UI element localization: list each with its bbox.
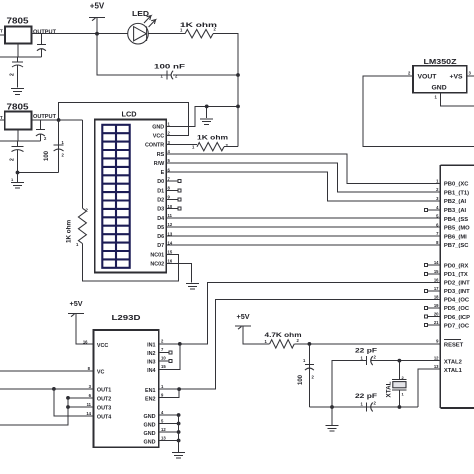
LCD character grid [102, 125, 129, 268]
junction ground rail / riser [330, 405, 334, 409]
capacitor C2 (polarized, to ground) [10, 57, 24, 88]
capacitor C9 22 pF (bottom) [355, 393, 377, 412]
svg-text:GND: GND [144, 431, 156, 437]
svg-text:16: 16 [168, 259, 173, 264]
svg-text:17: 17 [434, 286, 439, 291]
wire +5V to R4 [243, 326, 270, 344]
ground (LCD pin1) [200, 106, 213, 124]
svg-text:13: 13 [168, 231, 173, 236]
svg-text:1: 1 [265, 339, 268, 344]
svg-text:2: 2 [168, 131, 171, 136]
svg-text:XTAL1: XTAL1 [444, 368, 463, 374]
svg-text:PB0_(XC: PB0_(XC [444, 182, 469, 188]
regulator U2 7805 (second) [0, 102, 57, 130]
svg-text:8: 8 [168, 186, 171, 191]
svg-text:7805: 7805 [7, 102, 29, 112]
svg-text:1: 1 [402, 392, 405, 397]
svg-text:1: 1 [161, 74, 164, 79]
LCD module DIS1 [95, 110, 167, 273]
svg-text:VC: VC [97, 370, 105, 376]
svg-text:OUT2: OUT2 [97, 397, 111, 403]
svg-text:13: 13 [161, 436, 166, 441]
svg-text:+5V: +5V [237, 312, 250, 321]
LCD D0-D3 unconnected stubs [166, 180, 181, 211]
resistor R3 1K ohm (vertical, backlight) [66, 208, 89, 248]
svg-text:XTAL2: XTAL2 [444, 359, 462, 365]
svg-text:T: T [0, 29, 3, 34]
wire LCD E to PB2 [166, 172, 440, 201]
junction ground tap [205, 105, 209, 109]
svg-text:XTAL: XTAL [386, 381, 393, 397]
capacitor C3 100 nF [154, 64, 185, 80]
ground (xtal) [326, 407, 339, 431]
junction U2 output / +5V riser [57, 118, 61, 122]
+5V supply symbol (L293D) [68, 299, 84, 317]
svg-text:2: 2 [10, 73, 16, 76]
svg-text:VCC: VCC [97, 343, 108, 349]
wire R2 to GND bus [224, 146, 238, 148]
svg-text:12: 12 [161, 427, 166, 432]
wire R1 to GND bus corner [213, 34, 238, 75]
svg-text:1K ohm: 1K ohm [180, 22, 217, 29]
svg-text:2: 2 [62, 153, 65, 158]
svg-text:7: 7 [436, 231, 439, 236]
svg-text:14: 14 [434, 260, 439, 265]
svg-text:11: 11 [87, 402, 92, 407]
svg-text:1: 1 [436, 178, 439, 183]
wire U3 EN1 to PD4 [159, 300, 441, 390]
wire U4 +VS to edge [467, 75, 474, 77]
svg-text:10: 10 [168, 204, 173, 209]
svg-text:PB3_(AI: PB3_(AI [444, 208, 467, 214]
svg-text:OUT4: OUT4 [97, 415, 111, 421]
svg-text:PD3_(INT: PD3_(INT [444, 289, 470, 295]
svg-text:PD5_(OC: PD5_(OC [444, 306, 470, 312]
svg-text:3: 3 [168, 140, 171, 145]
svg-text:1: 1 [435, 95, 438, 100]
svg-text:PD1_(TX: PD1_(TX [444, 272, 468, 278]
svg-text:1: 1 [76, 242, 79, 247]
wire LCD D5 to PB5 [166, 226, 440, 228]
MCU PD unconnected stubs [424, 264, 440, 327]
wire U3 IN1 to PD2 [159, 282, 441, 344]
svg-text:R/W: R/W [154, 161, 165, 167]
svg-text:D1: D1 [157, 188, 164, 194]
capacitor C8 22 pF (top) [355, 348, 377, 366]
svg-text:GND: GND [144, 440, 156, 446]
junction GND bus / C3 [236, 73, 240, 77]
svg-text:1K ohm: 1K ohm [66, 220, 73, 243]
resistor R2 1K ohm (contrast) [192, 135, 229, 151]
svg-text:9: 9 [436, 339, 439, 344]
svg-text:IN1: IN1 [147, 343, 155, 349]
svg-text:9: 9 [168, 195, 171, 200]
svg-text:LCD: LCD [122, 110, 137, 119]
svg-text:2: 2 [374, 401, 377, 406]
svg-text:D7: D7 [157, 243, 164, 249]
temperature sensor U4 LM350Z [408, 59, 472, 100]
wire LCD RS to PB0 [166, 154, 440, 184]
svg-text:22 pF: 22 pF [355, 393, 377, 400]
svg-text:3: 3 [436, 196, 439, 201]
svg-text:PD4_(OC: PD4_(OC [444, 298, 470, 304]
svg-text:PB6_(MI: PB6_(MI [444, 234, 467, 240]
svg-text:12: 12 [168, 222, 173, 227]
svg-text:GND: GND [144, 423, 156, 429]
svg-text:7: 7 [161, 347, 164, 352]
wire LCD D6 to PB6 [166, 235, 440, 237]
svg-text:IN2: IN2 [147, 351, 155, 357]
wire LCD NC02 to ground [166, 264, 191, 283]
MCU PB3 unconnected stub [427, 209, 440, 211]
svg-text:11: 11 [168, 213, 173, 218]
svg-text:EN2: EN2 [145, 397, 156, 403]
wire +5V down to C3 [97, 34, 163, 75]
wire U3 VC to left edge [0, 370, 94, 372]
junction OUT1/OUT4 [52, 387, 56, 391]
+5V supply symbol (reset) [235, 312, 251, 329]
svg-text:OUTPUT: OUTPUT [33, 30, 57, 36]
junction +5V / LED node [95, 32, 99, 36]
svg-text:3: 3 [89, 384, 92, 389]
svg-text:D6: D6 [157, 234, 164, 240]
wire IN1-IN4 link [159, 344, 180, 370]
junction OUT2/OUT3 [66, 396, 70, 400]
svg-text:5: 5 [168, 158, 171, 163]
wire OUT1-OUT4 link [54, 389, 94, 416]
regulator U1 7805 (top) [0, 16, 57, 44]
wire OUT2/OUT3 to left edge [0, 398, 68, 425]
svg-text:CONTR: CONTR [145, 143, 164, 149]
svg-text:D5: D5 [157, 225, 164, 231]
svg-text:12: 12 [434, 356, 439, 361]
wire rail to XTAL1 riser [418, 369, 441, 407]
capacitor C4 (U2 output, vertical) [36, 120, 45, 141]
svg-text:3: 3 [469, 71, 472, 76]
svg-text:PD0_(RX: PD0_(RX [444, 263, 469, 269]
wire EN1-EN2 link [159, 389, 179, 398]
svg-text:21: 21 [434, 320, 439, 325]
svg-text:VCC: VCC [153, 134, 164, 140]
svg-text:LM350Z: LM350Z [424, 59, 458, 66]
svg-text:2: 2 [10, 158, 16, 161]
wire U3 GND pins bus [159, 413, 181, 452]
wire LCD D7 to PB7 [166, 244, 440, 246]
motor driver U3 L293D [94, 313, 159, 447]
wire C3 to GND bus [173, 74, 238, 76]
svg-text:13: 13 [434, 364, 439, 369]
svg-text:7: 7 [168, 176, 171, 181]
svg-text:NC01: NC01 [150, 252, 164, 258]
svg-text:+5V: +5V [90, 2, 105, 11]
svg-text:GND: GND [144, 414, 156, 420]
svg-text:PB1_(T1): PB1_(T1) [444, 190, 469, 196]
wire U4 VOUT loop to ADC [363, 76, 474, 147]
wire R3 top to +5V rail [81, 120, 83, 208]
svg-text:PB7_(SC: PB7_(SC [444, 243, 469, 249]
svg-text:4: 4 [168, 149, 171, 154]
wire OUT3 stub [68, 406, 94, 408]
+5V supply symbol (top) [89, 2, 105, 34]
wire U4 GND pin [441, 93, 474, 106]
junction crystal top [398, 359, 402, 363]
MCU PB pin labels [436, 178, 470, 249]
svg-text:15: 15 [434, 269, 439, 274]
svg-text:OUT3: OUT3 [97, 406, 111, 412]
svg-text:1K ohm: 1K ohm [197, 135, 229, 142]
svg-text:2: 2 [161, 339, 164, 344]
wire OUT2 stub [68, 397, 94, 399]
svg-text:OUT1: OUT1 [97, 388, 111, 394]
MCU XTAL2 label [434, 356, 462, 366]
svg-text:4: 4 [161, 410, 164, 415]
svg-text:PB5_(MO: PB5_(MO [444, 226, 470, 232]
svg-text:2: 2 [226, 143, 229, 148]
wire LCD R/W to PB1 [166, 163, 440, 192]
junction RESET / C7 [308, 342, 312, 346]
svg-text:1: 1 [62, 140, 65, 145]
junction crystal bottom [398, 405, 402, 409]
svg-text:PD7_(OC: PD7_(OC [444, 323, 470, 329]
wire U2 ground bus [0, 130, 40, 142]
svg-text:16: 16 [434, 277, 439, 282]
capacitor C7 100 (reset) [298, 344, 315, 407]
LED D1 [128, 11, 156, 44]
wire U2 output [32, 119, 83, 121]
wire LCD D4 to PB4 [166, 217, 440, 219]
LCD pin1 GND wire to ground [166, 106, 238, 126]
wire U1 ground bus [0, 44, 41, 58]
crystal Q1 XTAL [386, 361, 407, 407]
svg-text:2: 2 [175, 74, 178, 79]
svg-text:8: 8 [436, 240, 439, 245]
svg-text:5: 5 [161, 419, 164, 424]
wire R4 to MCU RESET [294, 343, 440, 345]
svg-text:1: 1 [168, 122, 171, 127]
junction EN1/EN2 [177, 387, 181, 391]
wire +5V rail from U1 output [32, 33, 128, 35]
ground (below U1) [11, 89, 24, 95]
svg-text:PD2_(INT: PD2_(INT [444, 281, 470, 287]
svg-text:14: 14 [86, 411, 91, 416]
svg-text:IN4: IN4 [147, 368, 155, 374]
svg-text:1: 1 [303, 358, 306, 363]
svg-text:18: 18 [434, 295, 439, 300]
LCD pin labels [145, 122, 173, 268]
svg-text:100: 100 [298, 374, 304, 385]
resistor R4 4.7K ohm [265, 332, 302, 348]
svg-text:L293D: L293D [112, 313, 141, 322]
svg-text:2: 2 [436, 187, 439, 192]
svg-text:2: 2 [408, 71, 411, 76]
svg-text:7805: 7805 [7, 16, 29, 26]
wire U3 OUT1 to left edge [0, 388, 94, 390]
U3 left pin labels [83, 340, 111, 421]
IN3 unconnected stub [159, 360, 169, 362]
wire C5 to C6 ground link [18, 172, 59, 174]
MCU XTAL1 label [434, 364, 463, 374]
svg-text:GND: GND [432, 85, 447, 92]
svg-text:PB2_(AI: PB2_(AI [444, 199, 467, 205]
svg-text:19: 19 [434, 303, 439, 308]
svg-text:+VS: +VS [450, 74, 464, 81]
IN2 unconnected stub [159, 351, 169, 353]
svg-text:LED: LED [132, 11, 149, 18]
svg-text:14: 14 [168, 240, 173, 245]
svg-text:IN3: IN3 [147, 360, 155, 366]
svg-text:15: 15 [168, 250, 173, 255]
junction IN1/IN4 [178, 342, 182, 346]
svg-text:1: 1 [361, 402, 364, 407]
wire LCD pin3 CONTR to R2 [166, 144, 197, 146]
wire +5V to U3 VCC pin16 [76, 314, 94, 345]
capacitor C1 (U1 output, vertical) [37, 34, 46, 57]
wire C8 to MCU XTAL2 [372, 360, 441, 362]
svg-text:15: 15 [161, 364, 166, 369]
svg-text:9: 9 [161, 393, 164, 398]
svg-text:GND: GND [152, 124, 164, 130]
svg-text:100: 100 [44, 150, 50, 161]
svg-text:D0: D0 [157, 179, 164, 185]
svg-text:1: 1 [11, 177, 14, 182]
wire LCD NC01 to backlight resistor [82, 244, 178, 282]
wire U1 input stub [0, 34, 5, 36]
ground (LCD NC02) [186, 283, 199, 289]
svg-text:E: E [161, 170, 165, 176]
U3 right pin labels [144, 339, 167, 446]
svg-text:VOUT: VOUT [418, 74, 438, 81]
wire LCD pin2 VCC to +5V rail [59, 103, 189, 136]
svg-text:8: 8 [88, 366, 91, 371]
wire GND vertical bus [237, 75, 239, 147]
svg-text:OUTPUT: OUTPUT [33, 114, 57, 120]
wire XTAL ground rail [309, 406, 417, 408]
resistor R1 1K ohm (top) [180, 22, 217, 38]
svg-text:RS: RS [157, 152, 165, 158]
ground (below U2) [11, 173, 24, 189]
svg-text:D4: D4 [157, 216, 164, 222]
svg-text:2: 2 [312, 375, 315, 380]
svg-text:1: 1 [161, 384, 164, 389]
svg-text:6: 6 [89, 393, 92, 398]
wire U2 input stub [0, 119, 5, 121]
svg-text:1: 1 [192, 145, 195, 150]
MCU PD pin labels [434, 260, 470, 329]
wire LED to R1 [148, 33, 185, 35]
svg-text:4: 4 [436, 205, 439, 210]
svg-text:2: 2 [44, 136, 47, 141]
junction GND bus top [236, 105, 240, 109]
svg-text:D2: D2 [157, 198, 164, 204]
svg-text:NC02: NC02 [150, 262, 164, 268]
svg-text:1: 1 [361, 355, 364, 360]
ground (below U3) [172, 452, 185, 458]
svg-text:D3: D3 [157, 207, 164, 213]
svg-text:2: 2 [374, 354, 377, 359]
svg-text:RESET: RESET [444, 342, 464, 348]
wire gnd riser to C8 rail [332, 361, 364, 407]
svg-text:PB4_(SS: PB4_(SS [444, 217, 468, 223]
MCU RESET label [436, 339, 464, 349]
svg-text:6: 6 [168, 167, 171, 172]
svg-text:20: 20 [434, 312, 439, 317]
svg-text:+5V: +5V [70, 299, 83, 308]
svg-text:T: T [0, 115, 3, 120]
svg-text:16: 16 [83, 340, 88, 345]
capacitor C5 (polarized, to ground) [10, 141, 24, 173]
microcontroller U5 (AVR) [440, 165, 474, 408]
capacitor C6 100uF (electrolytic) [44, 120, 65, 173]
svg-text:100 nF: 100 nF [154, 64, 185, 71]
svg-text:10: 10 [161, 356, 166, 361]
svg-text:PD6_(ICP: PD6_(ICP [444, 315, 470, 321]
svg-text:EN1: EN1 [145, 388, 156, 394]
junction ground link [16, 171, 20, 175]
